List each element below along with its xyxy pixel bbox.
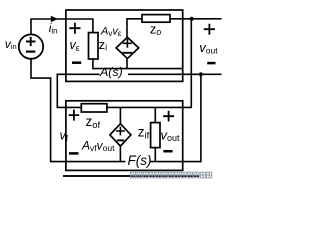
svg-text:zif: zif bbox=[138, 124, 150, 141]
svg-text:zo: zo bbox=[150, 22, 162, 38]
svg-text:A(s): A(s) bbox=[99, 65, 123, 79]
svg-text:F(s): F(s) bbox=[128, 153, 152, 168]
svg-text:vf: vf bbox=[60, 129, 69, 144]
svg-text:iin: iin bbox=[49, 21, 58, 35]
svg-text:Avfvout: Avfvout bbox=[81, 138, 115, 153]
svg-text:vε: vε bbox=[70, 38, 80, 53]
svg-text:zi: zi bbox=[99, 37, 108, 53]
svg-text:vout: vout bbox=[199, 40, 218, 56]
svg-text:zof: zof bbox=[86, 114, 101, 131]
svg-text:vout: vout bbox=[161, 127, 181, 143]
svg-text:vin: vin bbox=[5, 37, 17, 51]
